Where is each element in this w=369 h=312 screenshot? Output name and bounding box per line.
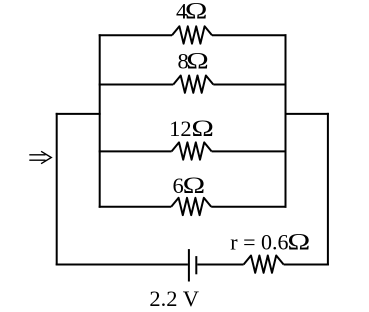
wire: left connector [56,113,101,115]
wire: branch 2 right lead [213,84,286,86]
wire: right outer vertical [327,113,329,265]
wire: right connector [285,113,329,115]
resistor R2 zigzag [173,76,213,93]
wire: inner left bus [99,34,101,208]
wire: bottom middle segment [197,264,243,266]
wire: inner right bus [285,34,287,208]
label 12Ω [169,115,214,141]
wire: branch 2 left lead [99,84,174,86]
wire: bottom left segment [56,264,188,266]
svg-text:r = 0.6: r = 0.6 [230,229,288,254]
label r = 0.6Ω [230,229,310,255]
svg-text:2.2 V: 2.2 V [149,286,199,311]
wire: branch 4 right lead [211,206,286,208]
battery short plate [195,256,197,274]
resistor r zigzag [244,256,284,273]
wire: branch 3 right lead [212,150,287,152]
wire: branch 1 right lead [212,34,287,36]
wire: branch 3 left lead [99,150,172,152]
svg-text:Ω: Ω [191,115,214,141]
label 6Ω [173,172,206,198]
wire: branch 1 left lead [99,34,172,36]
resistor R1 zigzag [172,26,212,43]
svg-text:12: 12 [169,116,192,141]
svg-text:Ω: Ω [287,229,310,255]
label 4Ω [176,0,207,24]
label 8Ω [178,48,209,74]
svg-text:Ω: Ω [183,172,206,198]
wire: left outer vertical [56,113,58,265]
battery long plate [188,249,190,281]
wire: bottom right segment [284,264,329,266]
wire: branch 4 left lead [99,206,172,208]
resistor R3 zigzag [172,142,212,159]
resistor R4 zigzag [171,198,211,215]
svg-text:Ω: Ω [186,48,209,74]
svg-text:Ω: Ω [185,0,208,24]
arrow indicator [29,151,51,163]
